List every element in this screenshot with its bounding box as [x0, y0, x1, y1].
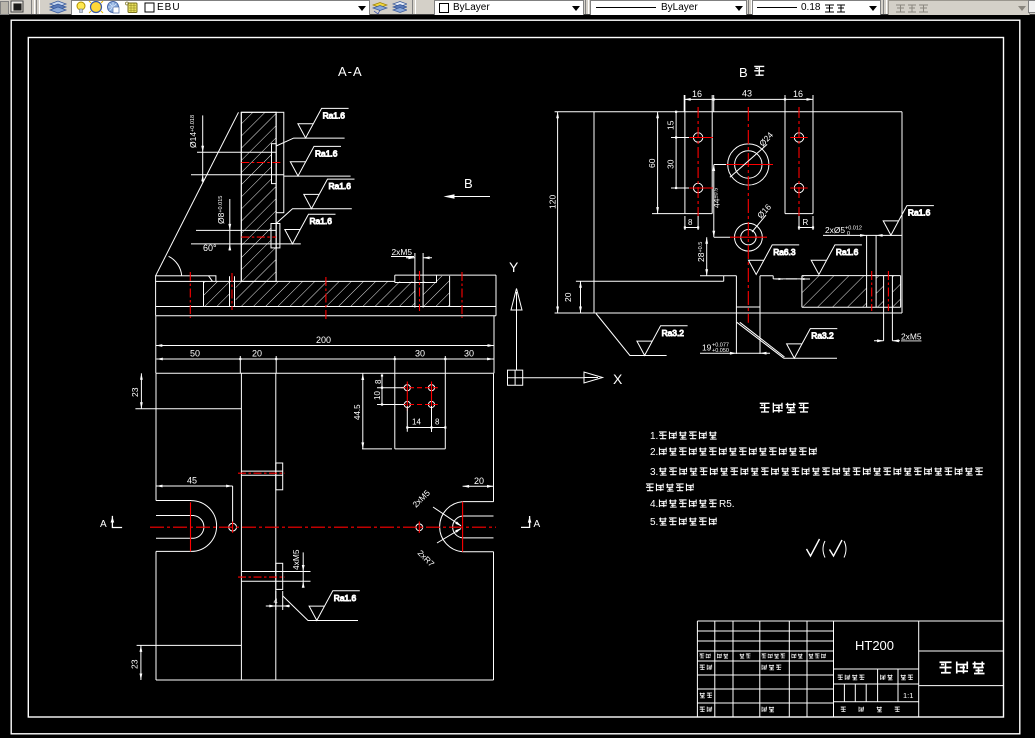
A-A column hatched section [241, 112, 276, 281]
plan view second dimension row 50/20/30/30 [156, 356, 493, 373]
color swatch [145, 3, 154, 12]
B view 44 dimension [714, 165, 730, 238]
A-A right thin plate [276, 112, 284, 212]
svg-text:44.5: 44.5 [353, 404, 362, 420]
A-A red centerline base left [189, 272, 191, 318]
svg-text:B: B [464, 176, 473, 191]
plan view bottom boss [276, 563, 283, 589]
toolbar layer combo [71, 0, 370, 16]
tech req item 3 wrap [646, 484, 654, 491]
svg-text:15: 15 [666, 120, 676, 130]
toolbar layers icon [47, 0, 69, 14]
B view Ra3.2 bottom left leader [596, 314, 667, 356]
svg-text:10: 10 [373, 391, 382, 400]
svg-text:0: 0 [847, 231, 850, 237]
A-A red centerline M5 hole [419, 271, 421, 311]
title block middle labels [838, 675, 843, 680]
svg-text:23: 23 [130, 659, 140, 669]
toolbar color combo [434, 0, 584, 16]
B view red centerlines 2xdia5 holes [871, 271, 873, 311]
title block grid [697, 621, 1003, 717]
B view 2xM5 dimension bottom right [874, 276, 900, 341]
plan view right locating point [416, 524, 423, 531]
A-A base hatch middle [236, 281, 415, 306]
B view 15/30 dimension [671, 112, 689, 188]
A-A Ra1.6 symbol 2 leader [284, 175, 351, 177]
svg-text:1.: 1. [650, 431, 658, 442]
plan view locating point red ticks [232, 522, 234, 533]
toolbar separator [412, 0, 416, 14]
A-A M5 tapped hole walls [415, 253, 423, 308]
A-A base left lip [156, 276, 216, 282]
technical requirements title [760, 403, 770, 412]
B view 8 dimension under left box [685, 216, 698, 230]
B view 2xdia5 dimension [823, 235, 902, 307]
A-A lower right small plate [276, 224, 280, 248]
title block part name [940, 662, 952, 673]
plan view left step edges [135, 409, 241, 646]
svg-text:4: 4 [274, 597, 278, 606]
plan view 44.5 dimension [362, 374, 392, 449]
svg-text:4xM5: 4xM5 [291, 549, 301, 570]
B view 16/43/16 dimension [684, 95, 813, 112]
toolbar separator [883, 0, 887, 14]
svg-text:Ra1.6: Ra1.6 [908, 208, 931, 218]
plan view 23 dimension top [140, 373, 142, 409]
A-A tiny lip mark [209, 276, 213, 282]
svg-text:120: 120 [548, 195, 558, 209]
B view right hole box [785, 95, 813, 214]
A-A base hatch right [423, 281, 450, 306]
svg-text:X: X [613, 371, 623, 387]
svg-text:20: 20 [252, 349, 262, 359]
toolbar lineweight combo [752, 0, 881, 16]
B view dia24 circle [728, 144, 769, 185]
svg-text:20: 20 [474, 476, 484, 486]
svg-text:2xØ5: 2xØ5 [825, 225, 845, 235]
plan view right U-slot [440, 502, 494, 552]
A-A base hatch left [204, 281, 230, 306]
svg-text:43: 43 [742, 89, 752, 99]
B view 28 dimension [700, 237, 724, 276]
B view small 4 dimensions [775, 278, 810, 280]
A-A dia8 hole surface lines [191, 230, 301, 244]
svg-text:Ra1.6: Ra1.6 [334, 593, 357, 603]
A-A Ra1.6 symbol 2 [290, 146, 341, 176]
plan view 4 dimension at boss [266, 591, 290, 610]
svg-text:16: 16 [793, 89, 803, 99]
A-A upper counterbore notch [272, 144, 277, 184]
svg-text:3.: 3. [650, 467, 658, 478]
svg-text:Y: Y [509, 259, 519, 275]
svg-text:HT200: HT200 [855, 638, 894, 653]
toolbar separator [31, 0, 35, 14]
A-A red centerline lower cross hole [241, 236, 276, 238]
B view direction arrow [447, 196, 490, 198]
UCS icon origin box [508, 370, 523, 385]
svg-text:Ra1.6: Ra1.6 [315, 148, 338, 158]
toolbar corner box [1028, 0, 1035, 13]
title block header labels [700, 654, 705, 658]
svg-text:20: 20 [563, 292, 573, 302]
svg-text:2xM5: 2xM5 [392, 247, 413, 257]
A-A Ra1.6 symbol 1 [298, 108, 349, 138]
svg-text:23: 23 [130, 387, 140, 397]
other-surfaces roughness marks [807, 539, 820, 556]
plan view main horizontal red centerline [150, 526, 496, 528]
bulb icon [77, 2, 85, 10]
svg-text:5.: 5. [650, 517, 658, 528]
svg-text:Ra1.6: Ra1.6 [329, 181, 352, 191]
svg-text:8: 8 [374, 379, 383, 384]
A-A red centerline upper cross hole [241, 162, 281, 164]
A-A left vertical hole walls [230, 276, 235, 306]
plan view left slot red vertical [190, 502, 192, 551]
B view red centerlines left holes [697, 107, 699, 216]
B view outline [594, 112, 902, 313]
svg-text:A: A [100, 519, 107, 530]
A-A Ra1.6 symbol 1 leader [276, 138, 345, 146]
B view red crosshair dia16 [730, 236, 767, 238]
svg-text:Ra1.6: Ra1.6 [323, 110, 346, 120]
B view small holes [693, 133, 702, 142]
B view 19 dimension [700, 352, 770, 354]
plan view top cross hole lines [241, 471, 282, 475]
B view red centerlines right holes [798, 107, 800, 216]
svg-text:50: 50 [190, 349, 200, 359]
svg-text:60: 60 [647, 158, 657, 168]
svg-text:19: 19 [702, 343, 712, 353]
svg-text:A: A [534, 519, 541, 530]
svg-text:+0.050: +0.050 [712, 348, 729, 354]
lock/plot icon [128, 3, 137, 13]
plan view Ra1.6 symbol [309, 591, 360, 621]
B view Ra1.6 top right [883, 206, 934, 236]
B view dia16 circle [735, 223, 763, 251]
sun icon [91, 2, 102, 13]
B view Ra1.6 middle [811, 245, 862, 275]
A-A lower counterbore notch [271, 224, 276, 248]
svg-text:30: 30 [666, 159, 676, 169]
svg-text:60°: 60° [203, 243, 217, 253]
plan view 23 dimension bottom [140, 645, 142, 680]
svg-text:2xM5: 2xM5 [901, 332, 922, 342]
plan view central column edges [241, 373, 275, 680]
svg-text:4.: 4. [650, 499, 658, 510]
B view Ra6.3 [749, 245, 800, 275]
plan view 14/8 dimensions [407, 406, 445, 432]
B view 20 dimension [576, 281, 594, 313]
plan view 10/8 dimensions [377, 375, 404, 405]
svg-text:8: 8 [435, 418, 440, 427]
freeze sun icon [108, 2, 119, 13]
B view dia16 label [752, 215, 766, 232]
B view Ra3.2 bottom middle [787, 329, 838, 359]
plan view 45 dimension [156, 486, 233, 523]
svg-text:Ra3.2: Ra3.2 [811, 331, 834, 341]
svg-text:14: 14 [412, 418, 421, 427]
plan view 4-hole detail box [395, 373, 446, 449]
svg-text:16: 16 [692, 89, 702, 99]
svg-text:B: B [739, 65, 748, 80]
svg-text:Ra3.2: Ra3.2 [662, 328, 685, 338]
svg-text:30: 30 [464, 349, 474, 359]
B view red crosshair dia24 [723, 164, 773, 166]
svg-text:1:1: 1:1 [903, 691, 913, 700]
svg-text:200: 200 [316, 335, 331, 345]
UCS icon Y axis [516, 310, 518, 370]
svg-text:2.: 2. [650, 447, 658, 458]
A-A Ra1.6 symbol 4 [285, 214, 336, 244]
plan view left locating point [229, 523, 237, 531]
title block row labels [700, 665, 705, 670]
svg-text:Ra1.6: Ra1.6 [310, 216, 333, 226]
A-A red centerline hole1 [231, 273, 233, 310]
svg-text:R: R [803, 218, 809, 227]
plan view outline [156, 373, 494, 680]
B view Ra3.2 bottom left [637, 326, 688, 356]
svg-text:Ra1.6: Ra1.6 [836, 247, 859, 257]
200 dimension line [156, 316, 494, 373]
A-A Ra1.6 symbol 3 [304, 179, 355, 209]
plan view right slot red vertical [462, 502, 464, 552]
B view 60 dimension [652, 112, 685, 214]
A-A dia8 dimension [229, 199, 231, 251]
B view red centerline main vertical [747, 107, 749, 323]
A-A inclined rib line 60deg [156, 112, 239, 275]
plan view left U-slot [156, 501, 217, 552]
plan view top boss [276, 463, 283, 490]
toolbar layer tool icons [371, 0, 407, 14]
plan view Ra1.6 leader [283, 596, 358, 621]
svg-text:8: 8 [688, 218, 693, 227]
A-A dia14 hole surface lines [191, 152, 284, 175]
B view R dimension under right box [799, 216, 813, 230]
B view center tongue walls [736, 276, 760, 354]
svg-text:R5.: R5. [719, 499, 735, 510]
A-A red centerline base mid [325, 277, 327, 320]
toolbar plot style combo (disabled) [888, 0, 1030, 16]
svg-text:45: 45 [187, 476, 197, 486]
A-A 2xM5 dimension [391, 257, 432, 258]
svg-text:30: 30 [415, 349, 425, 359]
plan view 4xM5 dimension [302, 552, 304, 585]
toolbar make-layer-current button [9, 0, 26, 14]
plan view boss red centerlines [238, 472, 285, 474]
toolbar separator [748, 0, 752, 14]
plan view 4-hole red centerlines [401, 387, 438, 389]
plan view 4 small holes [404, 385, 410, 391]
svg-text:Ra6.3: Ra6.3 [773, 247, 796, 257]
toolbar partial left icon [0, 1, 9, 15]
toolbar linetype combo [590, 0, 747, 16]
plan view 20 dimension right [463, 482, 494, 502]
A-A base outline [156, 275, 496, 316]
A-A Ra1.6 symbol 3 leader [276, 209, 352, 224]
A-A red centerline base right [461, 272, 463, 318]
plan view bottom cross hole lines [241, 572, 310, 582]
UCS icon X axis [523, 377, 584, 379]
B view Ra3.2 bottom middle leader [737, 322, 837, 358]
B view dia24 label [730, 144, 767, 177]
B view left hole box [685, 95, 712, 214]
B view 120 dimension [555, 112, 594, 313]
A-A dia14 dimension [202, 115, 204, 182]
toolbar separator [585, 0, 589, 14]
B view bottom hatch [802, 276, 867, 308]
A-A 60deg angle arc [169, 256, 182, 276]
svg-text:A-A: A-A [338, 64, 363, 79]
